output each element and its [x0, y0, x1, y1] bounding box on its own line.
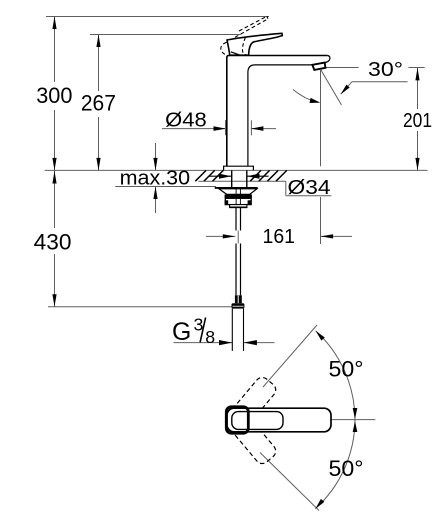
svg-text:161: 161	[263, 226, 296, 248]
svg-text:201: 201	[403, 110, 432, 132]
svg-text:267: 267	[81, 91, 116, 116]
svg-text:430: 430	[34, 229, 72, 254]
svg-text:50°: 50°	[329, 456, 364, 481]
svg-text:max.30: max.30	[120, 167, 191, 189]
svg-text:30°: 30°	[368, 59, 403, 81]
svg-text:50°: 50°	[329, 356, 364, 381]
svg-text:Ø34: Ø34	[288, 177, 331, 199]
svg-text:3: 3	[194, 315, 204, 335]
svg-text:300: 300	[36, 83, 72, 108]
svg-text:Ø48: Ø48	[165, 109, 207, 131]
svg-text:G: G	[172, 319, 191, 346]
svg-text:8: 8	[205, 327, 215, 347]
